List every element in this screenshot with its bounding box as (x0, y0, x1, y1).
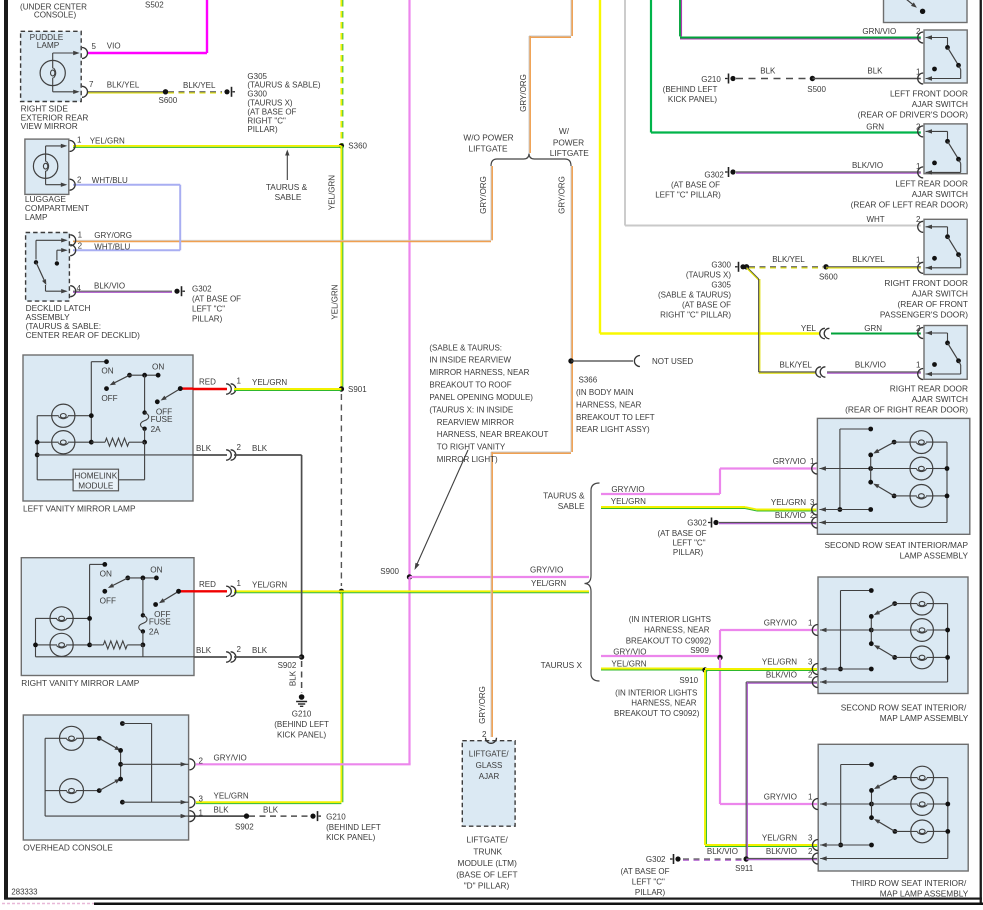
inline connector BLK/YEL to BLK/VIO (820, 367, 825, 377)
svg-text:WHT/BLU: WHT/BLU (92, 176, 128, 185)
overhead console box (23, 715, 188, 840)
vanity fuse (144, 375, 146, 412)
ground G302 for left rear door switch (730, 169, 735, 174)
svg-text:TAURUS &: TAURUS & (543, 490, 585, 500)
wire BLK right vanity pin 2 to S902 (194, 656, 227, 658)
wire GRY/VIO S900 right to brace (410, 576, 590, 578)
svg-text:MAP LAMP ASSEMBLY: MAP LAMP ASSEMBLY (880, 713, 969, 723)
svg-text:3: 3 (199, 795, 204, 804)
svg-text:OFF: OFF (154, 610, 170, 619)
svg-text:(BEHIND LEFT: (BEHIND LEFT (663, 85, 718, 94)
page border bottom line (4, 898, 982, 900)
wire YEL/GRN S910 down to third row pin 3 (704, 670, 706, 845)
svg-text:LIFTGATE/: LIFTGATE/ (467, 835, 509, 845)
svg-text:BLK: BLK (214, 805, 230, 814)
svg-text:(SABLE & TAURUS): (SABLE & TAURUS) (658, 290, 731, 299)
svg-text:G210: G210 (326, 812, 346, 821)
vanity switch 1 blade (125, 576, 130, 581)
svg-text:YEL/GRN: YEL/GRN (330, 284, 339, 319)
svg-text:(AT BASE OF: (AT BASE OF (682, 300, 731, 309)
assembly lamp contacts and blades (893, 775, 898, 780)
svg-text:1: 1 (199, 808, 204, 817)
svg-text:TRUNK: TRUNK (473, 847, 502, 857)
svg-text:REAR LIGHT ASSY): REAR LIGHT ASSY) (576, 425, 650, 434)
decklid latch switch internals (36, 239, 66, 241)
svg-text:1: 1 (916, 255, 921, 264)
svg-text:VIO: VIO (107, 41, 121, 50)
svg-text:GRY/VIO: GRY/VIO (764, 792, 797, 801)
wire YEL/GRN luggage lamp pin 1 to S360 (73, 145, 341, 147)
svg-text:CONSOLE): CONSOLE) (34, 11, 77, 20)
vanity lamp 2 (52, 431, 75, 454)
svg-text:AJAR SWITCH: AJAR SWITCH (912, 189, 968, 199)
svg-text:G305: G305 (247, 72, 267, 81)
wire BLK/VIO S911 to third row pin 2 (746, 858, 817, 860)
svg-text:BREAKOUT TO C9092): BREAKOUT TO C9092) (626, 636, 712, 645)
svg-text:HARNESS, NEAR: HARNESS, NEAR (631, 698, 697, 707)
svg-text:S600: S600 (819, 273, 838, 282)
svg-text:RIGHT REAR DOOR: RIGHT REAR DOOR (890, 383, 968, 393)
vanity switch ON stub (91, 361, 106, 363)
svg-text:GRY/VIO: GRY/VIO (764, 619, 797, 628)
assembly pin3 row (820, 668, 871, 670)
svg-text:SABLE: SABLE (558, 501, 585, 511)
svg-text:BLK: BLK (196, 444, 212, 453)
svg-text:PILLAR): PILLAR) (635, 888, 666, 897)
svg-text:YEL/GRN: YEL/GRN (531, 579, 566, 588)
svg-text:3: 3 (810, 498, 815, 507)
svg-text:(BASE OF LEFT: (BASE OF LEFT (456, 869, 517, 879)
svg-text:S500: S500 (807, 85, 826, 94)
svg-text:BLK/YEL: BLK/YEL (772, 255, 805, 264)
splice dot at G300 (744, 264, 749, 269)
svg-text:TAURUS &: TAURUS & (266, 182, 308, 192)
svg-text:BLK/VIO: BLK/VIO (852, 161, 883, 170)
right rear door ajar switch internals (918, 328, 923, 339)
svg-text:GRY/VIO: GRY/VIO (611, 485, 644, 494)
svg-text:1: 1 (808, 619, 813, 628)
svg-text:(AT BASE OF: (AT BASE OF (671, 181, 720, 190)
svg-text:G300: G300 (247, 90, 267, 99)
svg-text:OFF: OFF (156, 407, 172, 416)
left vanity RED wire inside to pin (180, 387, 193, 389)
svg-text:OVERHEAD CONSOLE: OVERHEAD CONSOLE (23, 842, 113, 852)
svg-text:RIGHT FRONT DOOR: RIGHT FRONT DOOR (884, 278, 968, 288)
svg-text:RIGHT "C": RIGHT "C" (247, 116, 286, 125)
assembly middle lamp row (872, 803, 911, 805)
svg-text:SABLE: SABLE (275, 192, 302, 202)
svg-text:THIRD ROW SEAT INTERIOR/: THIRD ROW SEAT INTERIOR/ (851, 878, 967, 888)
svg-text:MIRROR LIGHT): MIRROR LIGHT) (437, 455, 498, 464)
svg-text:1: 1 (78, 230, 83, 239)
wire GRY/VIO 2nd row (taurus x) pin 1 corner (719, 630, 721, 656)
vanity switch row to second ON contact (130, 374, 159, 376)
svg-text:LEFT "C": LEFT "C" (672, 539, 705, 548)
luggage compartment lamp box (25, 139, 69, 194)
inline connector left vanity pin 1 (226, 384, 231, 394)
splice S902 overhead (244, 813, 249, 818)
taurus & sable annotation arrow to yellow line (286, 152, 288, 180)
vanity switch row to second ON contact (128, 577, 157, 579)
ground G300/G305 for right front door switch (740, 264, 745, 269)
luggage compartment lamp internals (33, 154, 57, 178)
svg-text:ON: ON (152, 363, 164, 372)
top right cut-off switch box (884, 0, 968, 23)
door switch blade (948, 343, 959, 361)
wire BLK/YEL puddle lamp pin 7 to S600 (88, 91, 164, 93)
assembly pin1 row and switch (819, 468, 870, 470)
splice S600 top (163, 89, 168, 94)
splice S902 (299, 654, 304, 659)
svg-text:2A: 2A (151, 425, 162, 434)
door switch open contact (932, 67, 937, 72)
svg-text:BLK: BLK (263, 805, 279, 814)
svg-text:AJAR: AJAR (479, 772, 500, 781)
vanity switch 2 blade (178, 386, 183, 391)
svg-text:3: 3 (808, 658, 813, 667)
svg-text:HARNESS, NEAR: HARNESS, NEAR (644, 626, 710, 635)
svg-text:PILLAR): PILLAR) (247, 125, 278, 134)
svg-text:S911: S911 (735, 864, 754, 873)
svg-text:(TAURUS X): (TAURUS X) (686, 270, 732, 279)
svg-text:GRY/ORG: GRY/ORG (557, 176, 566, 214)
svg-text:LAMP ASSEMBLY: LAMP ASSEMBLY (900, 551, 969, 561)
second row seat interior/map lamp assembly box (taurus x) (818, 577, 968, 694)
svg-text:MODULE (LTM): MODULE (LTM) (458, 858, 518, 868)
svg-text:S909: S909 (690, 646, 709, 655)
svg-text:LEFT "C": LEFT "C" (632, 878, 665, 887)
svg-text:(AT BASE OF: (AT BASE OF (620, 867, 669, 876)
assembly door rail (840, 591, 842, 670)
splice S900 (407, 574, 412, 579)
wire YEL/GRN taurus x branch to S910 (601, 668, 703, 670)
svg-text:1: 1 (916, 361, 921, 370)
door switch blade (948, 141, 959, 159)
wire WHT from top to right front door ajar switch pin 2 (624, 0, 626, 226)
svg-text:MODULE: MODULE (78, 482, 114, 491)
svg-text:RED: RED (199, 580, 216, 589)
wire GRN/VIO from top to left front door ajar switch pin 2 (679, 0, 681, 36)
assembly connector pin 3 (812, 504, 818, 515)
assembly lamps (910, 431, 933, 454)
svg-text:YEL/GRN: YEL/GRN (327, 175, 336, 210)
vanity fuse (142, 578, 144, 615)
svg-text:BLK: BLK (252, 646, 268, 655)
svg-text:RIGHT VANITY MIRROR LAMP: RIGHT VANITY MIRROR LAMP (21, 678, 139, 688)
svg-text:GRY/ORG: GRY/ORG (519, 74, 528, 112)
svg-text:1: 1 (237, 579, 242, 588)
svg-text:LAMP: LAMP (25, 212, 48, 222)
ground G210 for left front door switch (730, 76, 735, 81)
svg-text:2A: 2A (149, 628, 160, 637)
vanity resistor (103, 641, 127, 649)
svg-text:S910: S910 (679, 676, 698, 685)
homelink module box (73, 469, 118, 491)
svg-text:AJAR SWITCH: AJAR SWITCH (912, 99, 968, 109)
svg-text:GRN: GRN (866, 123, 884, 132)
svg-text:(TAURUS X: IN INSIDE: (TAURUS X: IN INSIDE (429, 405, 513, 414)
svg-text:PILLAR): PILLAR) (673, 548, 704, 557)
right side exterior rear view mirror (puddle lamp) box (21, 31, 82, 101)
svg-text:2: 2 (916, 27, 921, 36)
wire GRY/VIO taurus x branch to S909 (601, 655, 720, 657)
assembly connector pin 1 (812, 463, 818, 474)
wire BLK dashed S902 to G210 overhead (249, 815, 308, 817)
svg-text:AJAR SWITCH: AJAR SWITCH (912, 288, 968, 298)
wire GRY/VIO S900 down and left to overhead console pin 2 (408, 577, 410, 764)
vanity red feed to pin (179, 590, 192, 592)
left front door ajar switch box (924, 30, 967, 83)
svg-text:VIEW MIRROR: VIEW MIRROR (21, 121, 78, 131)
wire BLK dashed G210 to S500 (736, 78, 810, 80)
svg-text:ON: ON (100, 569, 112, 578)
svg-text:G210: G210 (701, 75, 721, 84)
svg-text:2: 2 (237, 443, 242, 452)
right vanity mirror lamp box (21, 558, 194, 676)
assembly lamp contacts and blades (892, 440, 897, 445)
svg-text:WHT: WHT (866, 215, 884, 224)
vanity resistor (105, 438, 129, 446)
wire YEL/GRN right vanity row to brace (234, 590, 589, 592)
assembly connector pin 2 (812, 677, 817, 688)
svg-text:PANEL OPENING MODULE): PANEL OPENING MODULE) (429, 393, 533, 402)
svg-text:(BEHIND LEFT: (BEHIND LEFT (326, 823, 381, 832)
svg-text:SECOND ROW SEAT INTERIOR/MAP: SECOND ROW SEAT INTERIOR/MAP (824, 540, 968, 550)
svg-text:1: 1 (237, 376, 242, 385)
svg-text:BREAKOUT TO ROOF: BREAKOUT TO ROOF (429, 381, 511, 390)
svg-text:YEL/GRN: YEL/GRN (90, 136, 125, 145)
door switch open contact (932, 161, 937, 166)
overhead console internals (60, 726, 84, 750)
svg-text:YEL/GRN: YEL/GRN (611, 497, 646, 506)
wire GRY/VIO taurus&sable branch to 2nd row assembly pin 1 (601, 493, 720, 495)
assembly lamp contacts and blades (892, 601, 897, 606)
svg-text:KICK PANEL): KICK PANEL) (277, 730, 327, 739)
assembly right rail to pin 2 (933, 441, 947, 443)
third row seat interior/map lamp assembly box (818, 744, 968, 871)
overhead console door-on rail to pin 3 (120, 721, 125, 726)
svg-text:YEL/GRN: YEL/GRN (762, 658, 797, 667)
svg-text:W/O POWER: W/O POWER (463, 132, 513, 142)
svg-text:1: 1 (808, 792, 813, 801)
vanity left rail (37, 415, 52, 417)
svg-text:G300: G300 (711, 260, 731, 269)
svg-text:ON: ON (150, 565, 162, 574)
svg-text:YEL/GRN: YEL/GRN (252, 581, 287, 590)
svg-text:GRY/VIO: GRY/VIO (613, 647, 646, 656)
svg-text:LEFT FRONT DOOR: LEFT FRONT DOOR (890, 88, 968, 98)
ground G302 decklid (174, 289, 179, 294)
right rear door ajar switch box (924, 326, 967, 380)
svg-text:(REAR OF LEFT REAR DOOR): (REAR OF LEFT REAR DOOR) (851, 199, 969, 209)
svg-text:AJAR SWITCH: AJAR SWITCH (912, 394, 968, 404)
liftgate option brace (491, 154, 571, 167)
splice S500 (810, 76, 815, 81)
wire VIO from S502 to puddle lamp pin 5 (206, 0, 208, 53)
svg-text:LEFT REAR DOOR: LEFT REAR DOOR (895, 178, 968, 188)
assembly pin3 row (819, 509, 870, 511)
svg-text:(IN INTERIOR LIGHTS: (IN INTERIOR LIGHTS (615, 688, 697, 697)
svg-text:KICK PANEL): KICK PANEL) (326, 833, 376, 842)
svg-text:2: 2 (808, 671, 813, 680)
svg-text:G305: G305 (711, 280, 731, 289)
svg-text:S360: S360 (348, 141, 367, 150)
wire RED right vanity pin 1 (194, 590, 227, 592)
svg-text:BLK: BLK (760, 66, 776, 75)
wire BLK/YEL G300 down to right rear door connector (747, 267, 759, 279)
door switch blade (948, 47, 959, 65)
svg-text:1: 1 (810, 457, 815, 466)
svg-text:YEL: YEL (801, 324, 817, 333)
svg-text:S366: S366 (579, 375, 598, 384)
svg-text:CENTER REAR OF DECKLID): CENTER REAR OF DECKLID) (26, 330, 141, 340)
wire YEL/GRN S910 to 2nd row (taurus x) pin 3 (705, 668, 817, 670)
svg-text:2: 2 (78, 241, 83, 250)
wire GRY/VIO S909 down to third row pin 1 (719, 658, 721, 805)
svg-text:GRY/ORG: GRY/ORG (479, 176, 488, 214)
svg-text:S900: S900 (380, 567, 399, 576)
svg-text:BLK: BLK (289, 670, 298, 686)
svg-text:GLASS: GLASS (476, 761, 503, 770)
svg-text:BLK/VIO: BLK/VIO (766, 671, 797, 680)
vanity left rail (36, 617, 51, 619)
svg-text:1: 1 (916, 67, 921, 76)
svg-text:5: 5 (92, 42, 97, 51)
wire GRN to right rear door ajar switch pin 2 (831, 332, 921, 334)
svg-text:BLK: BLK (867, 66, 883, 75)
overhead console lamp contacts and blades (84, 737, 100, 739)
next page edge bottom strip (94, 903, 983, 906)
svg-text:7: 7 (89, 80, 94, 89)
wire GRN from top to left rear door ajar switch pin 2 (650, 0, 652, 133)
svg-text:(AT BASE OF: (AT BASE OF (247, 107, 296, 116)
svg-text:S902: S902 (235, 822, 254, 831)
svg-text:(BEHIND LEFT: (BEHIND LEFT (274, 720, 329, 729)
svg-text:S901: S901 (348, 385, 367, 394)
svg-text:ON: ON (101, 367, 113, 376)
wire YEL from top to right rear door connector (599, 0, 601, 334)
svg-text:BLK: BLK (252, 444, 268, 453)
assembly pin1 row and switch (820, 629, 871, 631)
page border left bar (4, 0, 8, 899)
svg-text:"D" PILLAR): "D" PILLAR) (464, 881, 510, 891)
assembly connector pin 2 (813, 853, 818, 864)
svg-text:WHT/BLU: WHT/BLU (94, 243, 130, 252)
svg-text:1: 1 (77, 135, 82, 144)
annotation arrow to S900 (416, 450, 469, 568)
liftgate/trunk module (LTM) box (462, 741, 515, 827)
vanity lamp 1 (50, 607, 73, 630)
wire BLK/YEL S600 to right front door switch pin 1 (826, 266, 921, 268)
assembly connector pin 2 (812, 517, 818, 528)
svg-text:2: 2 (199, 757, 204, 766)
svg-text:2: 2 (237, 645, 242, 654)
svg-text:POWER: POWER (553, 137, 584, 147)
wire BLK/VIO G302 to left rear door switch pin 1 (736, 171, 921, 173)
svg-text:TAURUS X: TAURUS X (541, 660, 583, 670)
svg-text:G302: G302 (646, 855, 666, 864)
svg-text:OFF: OFF (100, 597, 116, 606)
svg-text:YEL/GRN: YEL/GRN (214, 791, 249, 800)
puddle lamp internals (40, 60, 65, 85)
chassis ground G210 (299, 694, 305, 700)
svg-text:2: 2 (916, 215, 921, 224)
svg-text:(REAR OF DRIVER'S DOOR): (REAR OF DRIVER'S DOOR) (858, 109, 969, 119)
svg-text:BLK/VIO: BLK/VIO (707, 847, 738, 856)
wire YEL/GRN junction down to overhead console pin 3 (340, 591, 342, 802)
svg-text:LIFTGATE: LIFTGATE (550, 148, 589, 158)
svg-text:BLK/VIO: BLK/VIO (766, 847, 797, 856)
wire YEL/GRN left vanity to S901 (234, 388, 341, 390)
vanity switch 2 blade (176, 589, 181, 594)
svg-text:GRY/VIO: GRY/VIO (773, 457, 806, 466)
svg-text:GRN/VIO: GRN/VIO (862, 27, 896, 36)
svg-text:HOMELINK: HOMELINK (74, 472, 117, 481)
ground G305/G300 symbol (224, 89, 229, 94)
svg-text:283333: 283333 (11, 888, 37, 897)
svg-text:PASSENGER'S DOOR): PASSENGER'S DOOR) (880, 309, 968, 319)
door switch blade (948, 237, 959, 255)
svg-text:(SABLE & TAURUS:: (SABLE & TAURUS: (429, 343, 502, 352)
svg-text:G210: G210 (292, 709, 312, 718)
wire BLK overhead console pin 1 to S902 (189, 815, 244, 817)
splice S366 (568, 358, 573, 363)
svg-text:2: 2 (810, 511, 815, 520)
svg-text:HARNESS, NEAR BREAKOUT: HARNESS, NEAR BREAKOUT (437, 430, 549, 439)
svg-text:(IN BODY MAIN: (IN BODY MAIN (576, 388, 634, 397)
svg-text:GRY/ORG: GRY/ORG (94, 231, 132, 240)
svg-text:LIFTGATE: LIFTGATE (468, 143, 507, 153)
svg-text:(REAR OF RIGHT REAR DOOR): (REAR OF RIGHT REAR DOOR) (845, 404, 968, 414)
wire S366 stub to not used connector (571, 360, 633, 362)
inline connector right vanity pin 1 (226, 586, 231, 596)
door switch open contact (932, 362, 937, 367)
svg-text:BLK: BLK (196, 646, 212, 655)
wire BLK/VIO to right rear door switch pin 1 (827, 371, 921, 373)
left front door ajar switch internals (918, 32, 923, 43)
vanity switch ON stub (90, 563, 105, 565)
assembly pin1 row and switch (820, 803, 871, 805)
svg-text:W/: W/ (559, 126, 570, 136)
svg-text:S600: S600 (159, 96, 178, 105)
wire BLK/VIO dashed S911 to G302 (683, 858, 742, 860)
inline connector YEL to GRN (824, 328, 829, 338)
assembly door rail (839, 429, 841, 510)
vanity lamp 2 (50, 633, 73, 656)
svg-text:GRN: GRN (864, 324, 882, 333)
svg-text:YEL/GRN: YEL/GRN (611, 660, 646, 669)
svg-text:1: 1 (916, 162, 921, 171)
wire RED left vanity pin 1 (193, 388, 227, 390)
svg-text:TO RIGHT VANITY: TO RIGHT VANITY (437, 443, 506, 452)
svg-text:G302: G302 (192, 284, 212, 293)
svg-text:MAP LAMP ASSEMBLY: MAP LAMP ASSEMBLY (880, 888, 969, 898)
svg-text:BREAKOUT TO LEFT: BREAKOUT TO LEFT (576, 413, 655, 422)
vanity red feed to pin (180, 388, 193, 390)
svg-text:KICK PANEL): KICK PANEL) (668, 95, 718, 104)
svg-text:RED: RED (199, 377, 216, 386)
svg-text:2: 2 (808, 847, 813, 856)
wire BLK S500 to left front door switch pin 1 (812, 78, 920, 80)
svg-text:BLK/VIO: BLK/VIO (855, 361, 886, 370)
svg-text:IN INSIDE REARVIEW: IN INSIDE REARVIEW (429, 356, 511, 365)
vanity mid rail (75, 415, 91, 417)
wire BLK left vanity pin 2 to S902 (193, 454, 227, 456)
assembly connector pin 3 (812, 664, 817, 675)
svg-text:BLK/YEL: BLK/YEL (183, 81, 216, 90)
left rear door ajar switch internals (918, 126, 923, 137)
wire BLK dashed S902 to G210 (301, 661, 303, 693)
